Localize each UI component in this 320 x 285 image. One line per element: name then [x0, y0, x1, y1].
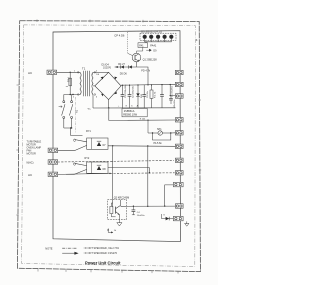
terminal CN right 9: [173, 182, 183, 186]
speaker SP1: [152, 128, 176, 145]
diode D11: [136, 84, 143, 108]
svg-text:R41: R41: [139, 45, 144, 47]
capacitor C6: [169, 96, 176, 109]
wire N(AC) dashed: [58, 161, 174, 163]
terminal CN right 11: [173, 216, 183, 220]
svg-text:NOTE: NOTE: [45, 246, 52, 250]
terminal CN right 10: [175, 204, 183, 208]
connector J21-J25: [140, 31, 176, 40]
relay contact pair (primary switch): [59, 95, 78, 129]
svg-text:MOTOR: MOTOR: [27, 153, 36, 156]
svg-text:RE56E 10W: RE56E 10W: [123, 114, 137, 117]
svg-text:Q2 KRC243M: Q2 KRC243M: [114, 196, 130, 199]
svg-text:R 10k: R 10k: [140, 119, 146, 121]
bridge rectifier D1-D4: [95, 63, 121, 99]
wire Q2 collector rail: [121, 205, 176, 207]
capacitor C2: [128, 85, 135, 108]
wire contacts down to relay row: [71, 128, 83, 136]
svg-text:PA 5.6k: PA 5.6k: [154, 142, 163, 145]
capacitor C4: [132, 206, 146, 217]
wire RY1 out: [108, 145, 175, 148]
schematic main box: [53, 31, 180, 242]
ground right: [185, 221, 189, 226]
svg-text:2B: 2B: [74, 110, 77, 113]
legend note: [45, 246, 119, 255]
svg-text:T1: T1: [82, 67, 86, 71]
wire primary bottom to contacts: [64, 94, 80, 96]
terminal motor left: [48, 148, 58, 152]
wire AC top feed: [57, 71, 80, 73]
node CP dotted feed: [127, 32, 129, 53]
svg-text:1S2076: 1S2076: [103, 67, 112, 69]
terminal N(AC): [48, 160, 58, 164]
wire Q1 to rail: [136, 62, 138, 67]
resistor R41: [138, 43, 148, 48]
wire secondary to bridge: [93, 71, 109, 73]
svg-text:SP1: SP1: [157, 128, 162, 131]
svg-text:N(AC): N(AC): [27, 161, 34, 164]
svg-text:: IF NOT SPECIFIED, Vda ± 5%: : IF NOT SPECIFIED, Vda ± 5%: [83, 247, 119, 250]
relay RY1: [58, 130, 108, 151]
wire loop terminal 9: [165, 185, 174, 206]
transformer T1: [73, 67, 98, 99]
svg-text:C3 10u: C3 10u: [147, 90, 149, 98]
wire to Q2 rail: [147, 146, 149, 206]
diode row D5 D6 with R4: [115, 63, 151, 76]
svg-text:R4 27: R4 27: [118, 63, 125, 66]
svg-text:PA41: PA41: [150, 45, 157, 48]
svg-text:10u/16v: 10u/16v: [137, 215, 146, 217]
chassis dash-dot boundary: [22, 25, 196, 267]
relay RY2: [66, 157, 108, 175]
wire top rail +B: [121, 83, 175, 86]
svg-text:RY2: RY2: [85, 157, 90, 160]
capacitor C5: [160, 84, 173, 108]
border frame: [18, 21, 201, 272]
capacitor C3: [142, 85, 149, 108]
wire relay junction drop: [112, 146, 114, 208]
transistor Q1: [132, 53, 157, 62]
svg-text:CP 4.D6: CP 4.D6: [114, 33, 125, 37]
wire R41 to Q1: [137, 47, 143, 53]
wire to terminal C3: [170, 85, 175, 96]
terminal CN right 3: [175, 94, 183, 98]
terminal AC top-left: [47, 70, 57, 74]
resistor 1k bottom: [107, 228, 117, 233]
transistor Q2 block: [108, 196, 130, 219]
fuse F61: [66, 72, 72, 94]
wire bottom rail: [93, 107, 175, 109]
terminal CN right 6: [175, 144, 183, 148]
capacitor C1: [121, 84, 128, 108]
terminal CN right 8: [175, 171, 183, 175]
svg-text:R: R: [107, 229, 109, 232]
svg-text:PD 4.7k: PD 4.7k: [141, 69, 150, 72]
svg-text:100u/16v: 100u/16v: [174, 99, 176, 109]
label turntable motor: [27, 141, 42, 156]
svg-text:D5 D6: D5 D6: [120, 72, 128, 75]
terminal AC lower: [48, 172, 58, 176]
wire connector bus: [145, 39, 172, 43]
terminal CN right 7: [175, 158, 183, 162]
wire RY2 out: [108, 168, 149, 173]
svg-text:Power Unit Circuit: Power Unit Circuit: [85, 260, 121, 265]
border tick marks: [16, 19, 201, 273]
svg-text:J21 J22/J23 J24 J25: J21 J22/J23 J24 J25: [141, 31, 163, 33]
regulator Q3 box: [122, 108, 147, 116]
terminal CN right 2: [175, 82, 183, 86]
svg-text:Q1 2SB1238: Q1 2SB1238: [143, 59, 158, 62]
terminal CN right 1: [175, 70, 183, 74]
svg-text:C1 4700u/16v: C1 4700u/16v: [125, 84, 127, 98]
legend dash sample: [62, 247, 77, 249]
svg-text:C2 100u/16v: C2 100u/16v: [132, 85, 134, 98]
ground Q2: [117, 217, 122, 226]
diode D9 arrow: [146, 49, 151, 51]
svg-text:RY1: RY1: [86, 130, 91, 133]
resistor R 4.7k: [150, 84, 156, 108]
node fuse top junction: [70, 72, 71, 73]
svg-text:F61: F61: [66, 78, 70, 83]
wire bridge minus drop: [108, 100, 110, 108]
svg-text:R 4.7k: R 4.7k: [154, 91, 156, 98]
terminal CN right 5: [175, 131, 183, 135]
wire rail to lower rail: [109, 108, 176, 120]
svg-text:D1-D4: D1-D4: [102, 63, 110, 66]
legend arrow sample: [62, 252, 78, 255]
svg-text:+C 16v/25v: +C 16v/25v: [172, 85, 174, 97]
svg-text:2SB561A: 2SB561A: [124, 110, 135, 113]
terminal CN right 4: [175, 118, 183, 122]
svg-text:: IF NOT SPECIFIED: 1SS270: : IF NOT SPECIFIED: 1SS270: [83, 252, 117, 255]
wire AC lower: [58, 173, 110, 174]
wire SP feed: [148, 120, 153, 133]
polarity marks under caps: [118, 105, 139, 108]
diode D10: [162, 214, 174, 220]
dash-dot vertical separator: [75, 97, 77, 133]
